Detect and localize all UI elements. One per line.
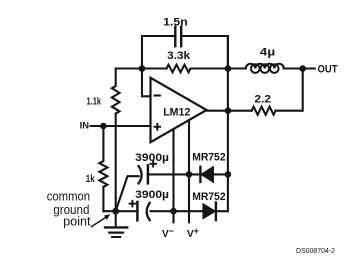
diode MR752 upper bbox=[200, 167, 213, 182]
wire V+ supply line bbox=[188, 120, 190, 222]
svg-text:1k: 1k bbox=[86, 174, 95, 185]
wire inverting input bbox=[142, 69, 151, 97]
svg-text:LM12: LM12 bbox=[163, 107, 190, 119]
node output clamp junction bbox=[225, 171, 232, 178]
ground bbox=[105, 211, 127, 237]
svg-text:MR752: MR752 bbox=[192, 191, 226, 203]
wire output vertical bbox=[227, 36, 229, 211]
wire positive rail row bbox=[148, 173, 228, 175]
op-amp U1 triangle bbox=[151, 78, 207, 142]
wire 2.2 to OUT vertical bbox=[276, 69, 303, 111]
resistor 1.1k bbox=[112, 69, 120, 211]
wire ground diagonal to cap bbox=[116, 176, 139, 211]
svg-text:DS008704-2: DS008704-2 bbox=[296, 246, 335, 255]
node V+ rail junction bbox=[186, 171, 193, 178]
wire V- supply line bbox=[172, 129, 174, 222]
svg-text:OUT: OUT bbox=[318, 64, 338, 76]
svg-text:4µ: 4µ bbox=[260, 46, 275, 58]
svg-text:IN: IN bbox=[80, 121, 90, 132]
wire output bbox=[207, 110, 252, 112]
wire input bbox=[91, 125, 151, 127]
wire inductor to OUT bbox=[284, 67, 315, 69]
arrow to ground point bbox=[92, 214, 111, 226]
capacitor 3900u lower bbox=[137, 202, 149, 220]
wire feedback rail left bbox=[116, 67, 167, 69]
node output-feedback junction bbox=[225, 65, 232, 72]
label common ground point bbox=[47, 188, 91, 228]
op-amp plus sign bbox=[155, 124, 161, 130]
resistor 3.3k bbox=[167, 65, 191, 73]
capacitor 3900u lower plus bbox=[130, 201, 136, 207]
op-amp minus sign bbox=[155, 94, 160, 96]
node feedback junction bbox=[139, 65, 146, 72]
inductor 4u bbox=[245, 64, 284, 73]
node OUT junction bbox=[299, 65, 306, 72]
svg-text:2.2: 2.2 bbox=[254, 93, 271, 105]
node common ground bbox=[112, 208, 119, 215]
node output junction bbox=[225, 107, 232, 114]
svg-text:3.3k: 3.3k bbox=[167, 50, 191, 62]
diode MR752 lower bbox=[203, 203, 216, 221]
wire ground rail row bbox=[103, 210, 137, 212]
wire negative rail row bbox=[151, 210, 228, 212]
capacitor 3900u upper plus bbox=[150, 161, 156, 167]
node IN junction bbox=[100, 123, 107, 130]
svg-text:1.5n: 1.5n bbox=[163, 16, 188, 28]
capacitor 3900u upper bbox=[139, 165, 148, 183]
svg-text:1.1k: 1.1k bbox=[87, 97, 102, 108]
svg-text:MR752: MR752 bbox=[192, 152, 226, 164]
svg-text:V−: V− bbox=[162, 226, 174, 240]
wire top loop right leg bbox=[181, 36, 228, 69]
resistor 1k bbox=[99, 126, 107, 211]
wire feedback rail right bbox=[191, 67, 245, 69]
svg-text:3900µ: 3900µ bbox=[135, 152, 169, 164]
wire top loop left leg bbox=[142, 36, 175, 69]
svg-text:3900µ: 3900µ bbox=[135, 189, 169, 201]
capacitor 1.5n plates bbox=[175, 27, 181, 46]
svg-text:V+: V+ bbox=[187, 226, 199, 240]
node V- rail junction bbox=[170, 208, 177, 215]
svg-text:point: point bbox=[63, 214, 91, 229]
resistor 2.2 bbox=[252, 107, 276, 115]
